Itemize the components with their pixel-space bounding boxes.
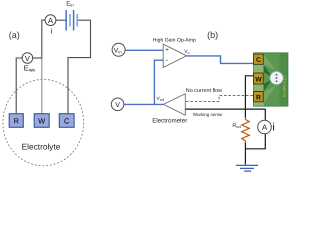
svg-text:DS-SPE-C110: DS-SPE-C110: [283, 75, 287, 97]
electrode W: [34, 114, 49, 128]
voltmeter V1 (Ewe): [22, 53, 33, 64]
svg-text:W: W: [38, 117, 46, 126]
svg-text:C: C: [256, 57, 261, 64]
svg-text:A: A: [262, 123, 268, 132]
svg-text:Vin: Vin: [114, 47, 123, 54]
svg-text:(a): (a): [9, 30, 20, 40]
pad C: [254, 54, 264, 64]
wire V-right to W wire: [32, 57, 41, 59]
svg-text:Electrolyte: Electrolyte: [22, 141, 61, 151]
op-amp U2 electrometer: [164, 94, 186, 115]
svg-text:V: V: [25, 54, 30, 63]
wire V-left down to R electrode: [16, 58, 22, 114]
svg-text:Electrometer: Electrometer: [152, 117, 187, 124]
wire feedback to - input: [154, 60, 163, 104]
wire ammeter bottom to resistor bottom: [245, 134, 265, 149]
wire working sense: [185, 108, 265, 110]
battery E_in: [66, 10, 77, 31]
wire W pad down through junction: [245, 76, 253, 118]
wire battery to C electrode: [68, 20, 91, 114]
svg-text:+: +: [165, 48, 169, 54]
wire ammeter-left to W-electrode vertical: [42, 20, 45, 58]
svg-text:(b): (b): [207, 30, 218, 40]
svg-text:Ein: Ein: [66, 0, 74, 7]
connector circle: [270, 72, 283, 85]
svg-text:i: i: [272, 122, 274, 134]
source V (ref meter): [111, 98, 124, 111]
wire V to electrometer output: [124, 103, 164, 105]
pad W: [254, 73, 264, 84]
pad R: [254, 92, 264, 102]
svg-text:R: R: [256, 95, 261, 102]
ammeter A1: [45, 15, 56, 26]
svg-text:V: V: [115, 102, 120, 109]
ground: [236, 165, 258, 171]
wire ammeter-right to battery: [56, 19, 66, 21]
svg-text:Vo: Vo: [184, 49, 189, 55]
svg-text:Vref: Vref: [157, 96, 165, 102]
ammeter A2: [258, 120, 272, 134]
svg-text:Rext: Rext: [232, 123, 241, 129]
wire Vin to op-amp + input: [125, 49, 163, 51]
electrode C: [59, 114, 74, 128]
wire resistor to ground: [244, 143, 246, 165]
SPE board: [254, 53, 289, 106]
svg-text:High Gain Op-Amp: High Gain Op-Amp: [153, 37, 196, 43]
resistor R_ext: [242, 118, 250, 144]
svg-text:C: C: [64, 117, 70, 126]
wire op-amp output to C pad: [187, 56, 254, 64]
electrolyte dashed circle: [3, 79, 84, 165]
svg-text:Working sense: Working sense: [193, 112, 223, 117]
wire ammeter branch: [264, 109, 266, 120]
dashed wire electrometer input to R pad: [186, 96, 254, 102]
svg-text:No current flow: No current flow: [186, 88, 222, 94]
svg-text:A: A: [48, 16, 53, 25]
source V_in: [112, 43, 125, 56]
op-amp U1: [163, 44, 186, 67]
wire W sense lower (gray): [41, 58, 43, 114]
svg-text:W: W: [255, 77, 262, 84]
electrode R: [9, 114, 23, 128]
svg-text:R: R: [13, 117, 19, 126]
